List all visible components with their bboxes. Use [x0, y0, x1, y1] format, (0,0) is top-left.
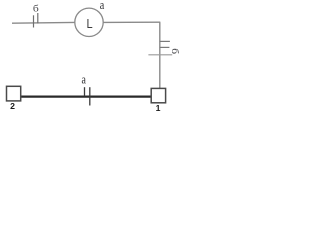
svg-text:1: 1 — [156, 103, 161, 113]
svg-text:2: 2 — [10, 101, 15, 111]
svg-text:a: a — [81, 74, 85, 87]
svg-text:б: б — [169, 48, 179, 54]
svg-text:a: a — [100, 0, 104, 12]
svg-text:L: L — [87, 16, 93, 31]
svg-text:б: б — [33, 4, 39, 14]
